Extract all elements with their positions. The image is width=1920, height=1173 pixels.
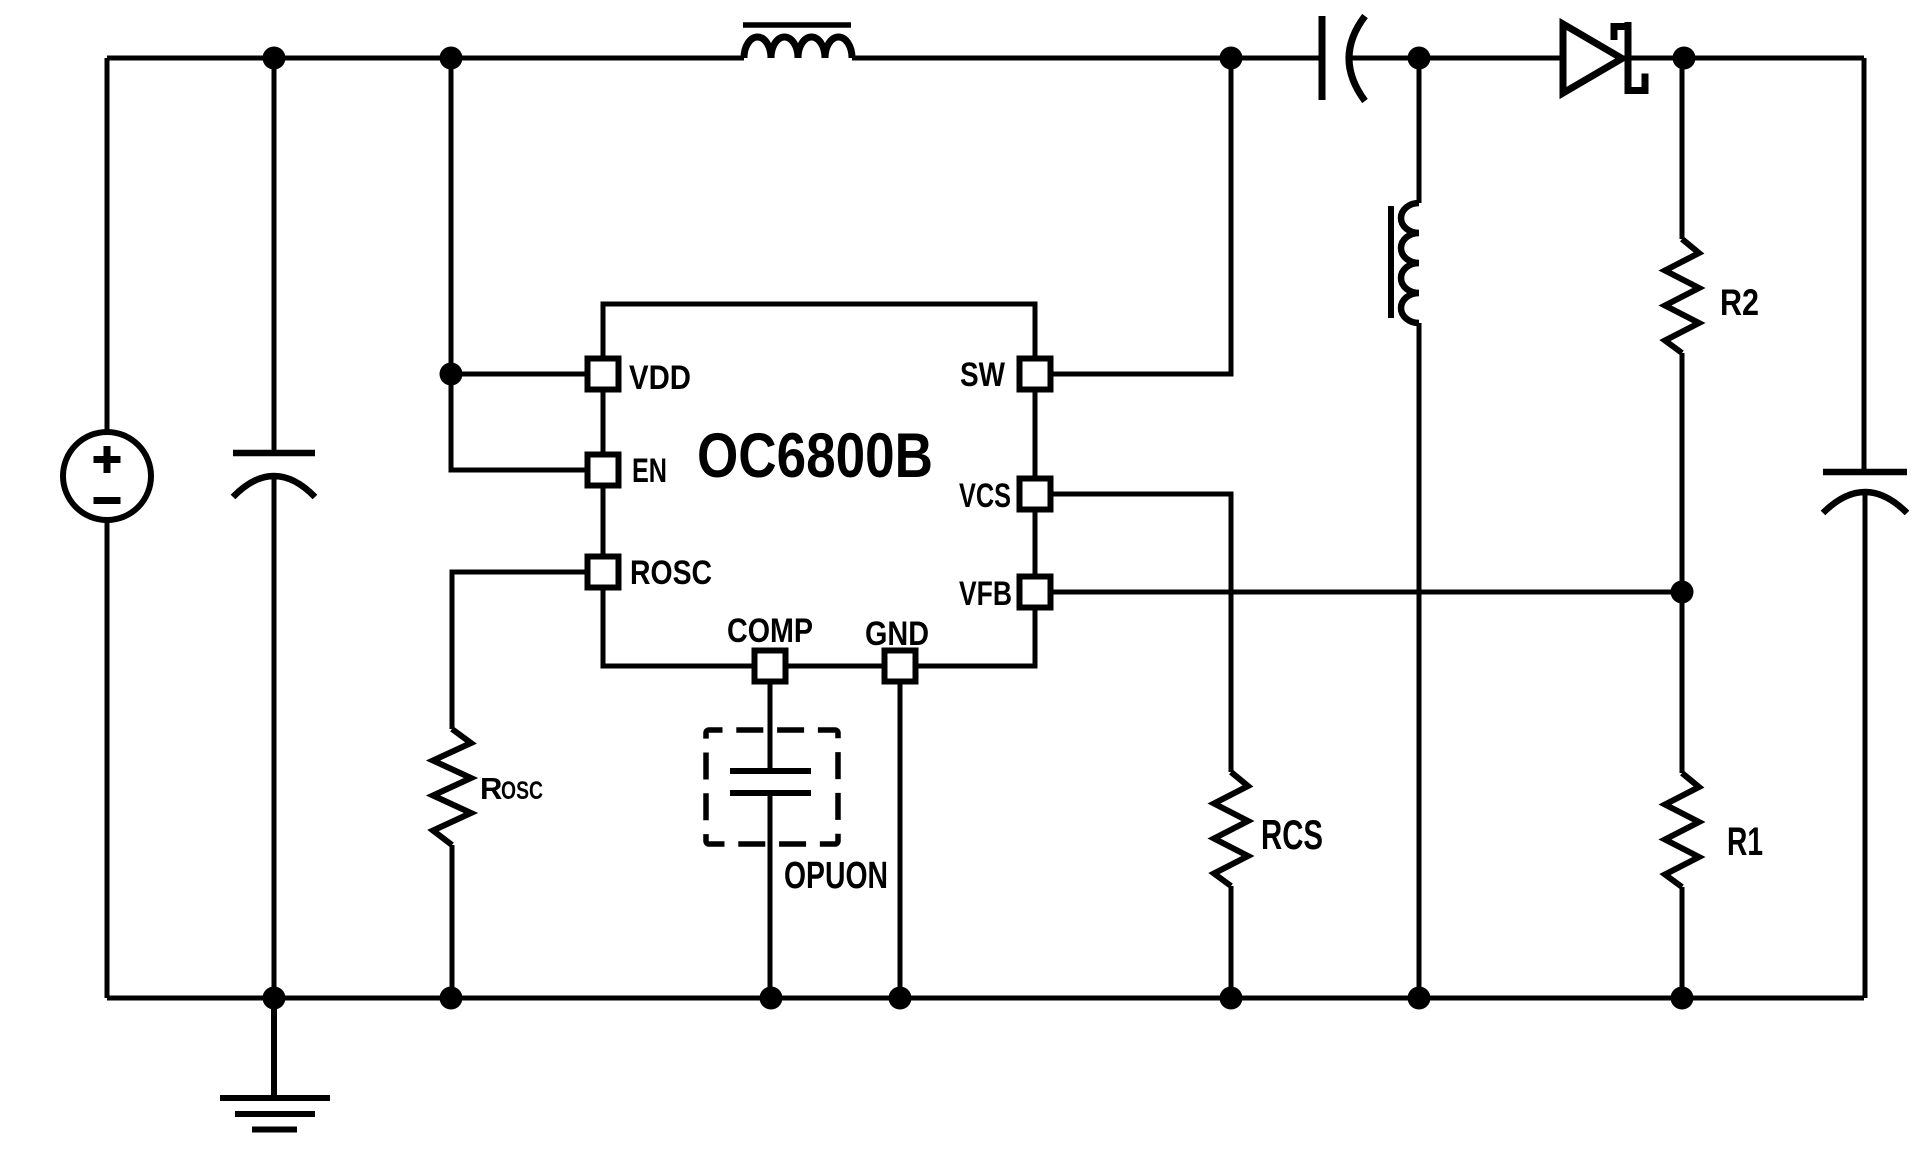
- wire secondary winding T1 top lead: [1417, 58, 1422, 203]
- wire bottom rail: [107, 996, 1864, 1001]
- wire R1 to bottom rail: [1680, 887, 1685, 998]
- node RCS bottom: [1220, 987, 1243, 1010]
- svg-text:OSC: OSC: [501, 777, 543, 805]
- wire COMP pin down: [768, 666, 773, 771]
- inductor T1 winding: [1401, 203, 1419, 323]
- node VDD rail top: [440, 47, 463, 70]
- svg-text:R: R: [480, 771, 502, 806]
- svg-text:RCS: RCS: [1261, 811, 1323, 858]
- node VIN cap C1 top: [263, 47, 286, 70]
- wire GND pin to bottom rail: [898, 666, 903, 998]
- pin VFB: [1020, 577, 1051, 608]
- wire left rail down to source V1: [105, 58, 110, 433]
- op-amp U1 box OC6800B: [603, 304, 1035, 666]
- wire top rail inductor L1 to capacitor C2: [852, 56, 1322, 61]
- svg-text:VDD: VDD: [629, 359, 691, 397]
- wire VDD supply drop: [449, 58, 454, 374]
- resistor R2: [1665, 239, 1699, 353]
- node SW top rail: [1220, 47, 1243, 70]
- wire VFB node to R1: [1680, 592, 1685, 773]
- wire top rail diode D1 cathode to output corner: [1622, 56, 1864, 61]
- capacitor C1 curved bottom plate: [233, 476, 315, 497]
- svg-text:R2: R2: [1720, 282, 1759, 323]
- resistor R1: [1665, 773, 1699, 887]
- node COMP bottom: [760, 987, 783, 1010]
- wire R2 to VFB node: [1680, 353, 1685, 592]
- pin VCS: [1020, 479, 1051, 510]
- capacitor C2 right curved plate: [1349, 16, 1365, 101]
- node T1 bottom: [1408, 987, 1431, 1010]
- node VDD pin junction: [440, 363, 463, 386]
- wire EN loop: [451, 374, 603, 470]
- wire capacitor C1 to bottom rail: [272, 478, 277, 998]
- wire VCS pin to RCS resistor: [1035, 494, 1231, 772]
- capacitor C2 left plate: [1319, 16, 1326, 100]
- svg-text:VFB: VFB: [959, 575, 1012, 613]
- wire OPUON capacitor to bottom rail: [768, 793, 773, 998]
- wire output capacitor C3 top lead: [1823, 469, 1907, 476]
- resistor Rosc: [433, 729, 471, 845]
- node diode output: [1673, 47, 1696, 70]
- node C1 bottom: [263, 987, 286, 1010]
- wire VFB pin to feedback node: [1035, 590, 1682, 595]
- wire ROSC pin to Rosc resistor: [452, 572, 603, 729]
- source V1 (DC supply): [63, 432, 151, 520]
- ground: [220, 998, 330, 1130]
- node VFB divider: [1671, 581, 1694, 604]
- wire top rail left (VIN to inductor L1): [107, 56, 744, 61]
- wire source V1 to bottom rail: [105, 520, 110, 998]
- inductor L1: [744, 37, 852, 58]
- wire diode node down to R2: [1680, 58, 1685, 239]
- pin GND: [885, 651, 916, 682]
- svg-text:VCS: VCS: [959, 477, 1011, 515]
- svg-text:EN: EN: [632, 452, 667, 490]
- pin COMP: [755, 651, 786, 682]
- wire top rail capacitor C2 to diode D1 anode: [1351, 56, 1563, 61]
- capacitor OPUON dashed box: [706, 730, 838, 844]
- pin EN: [588, 455, 619, 486]
- diode D1 (Schottky): [1563, 22, 1645, 94]
- svg-text:R1: R1: [1727, 820, 1763, 864]
- wire right rail down to output capacitor C3: [1862, 58, 1867, 472]
- capacitor OPUON plates: [730, 771, 811, 793]
- capacitor C1 top plate: [233, 450, 315, 457]
- node C2 T1 junction: [1408, 47, 1431, 70]
- node Rosc bottom: [440, 987, 463, 1010]
- resistor RCS: [1214, 772, 1248, 886]
- svg-text:ROSC: ROSC: [630, 554, 712, 592]
- svg-text:SW: SW: [960, 356, 1006, 394]
- wire SW pin to top rail: [1035, 58, 1231, 374]
- wire input cap C1 top lead: [272, 58, 277, 453]
- inductor T1 core bar: [1388, 206, 1394, 318]
- svg-text:GND: GND: [865, 615, 929, 653]
- svg-text:COMP: COMP: [727, 612, 813, 650]
- wire Rosc to bottom rail: [450, 845, 455, 998]
- node R1 bottom: [1671, 987, 1694, 1010]
- wire T1 winding to bottom rail: [1417, 323, 1422, 998]
- wire VDD junction to VDD pin: [451, 372, 603, 377]
- wire capacitor C3 to bottom rail: [1863, 494, 1868, 998]
- svg-text:OC6800B: OC6800B: [697, 421, 933, 491]
- pin ROSC: [588, 557, 619, 588]
- pin VDD: [588, 359, 619, 390]
- inductor L1 core bar: [743, 22, 851, 28]
- node GND bottom: [889, 987, 912, 1010]
- svg-text:OPUON: OPUON: [784, 855, 888, 897]
- pin SW: [1020, 359, 1051, 390]
- wire RCS to bottom rail: [1229, 886, 1234, 998]
- capacitor C3 curved bottom plate: [1823, 492, 1907, 513]
